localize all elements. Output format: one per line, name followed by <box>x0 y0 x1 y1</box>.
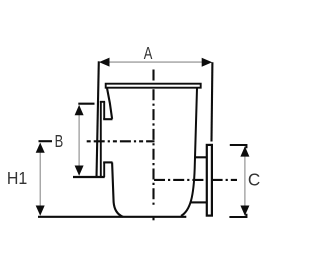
right outlet plate <box>207 145 212 216</box>
right wall <box>181 88 197 216</box>
arrow H1 bottom <box>36 206 45 216</box>
left wall upper <box>107 88 112 119</box>
svg-text:C: C <box>248 170 260 190</box>
dimension line B <box>78 106 80 175</box>
left inlet arm top <box>103 118 112 120</box>
left wall lower <box>112 162 123 216</box>
H1 extension top <box>39 140 53 142</box>
extension line A left <box>97 61 99 177</box>
C extension bottom <box>229 214 246 217</box>
left inlet flange inner face lower <box>103 162 105 177</box>
right outlet arm bottom <box>191 201 207 203</box>
arrow H1 top <box>36 143 45 153</box>
arrow A left <box>99 58 110 67</box>
dimension line A <box>100 61 211 63</box>
dimension line H1 <box>39 144 41 215</box>
dimension line C <box>244 148 246 215</box>
centerline vertical end dot <box>152 218 154 221</box>
arrow A right <box>202 58 213 67</box>
centerline left inlet <box>87 140 155 142</box>
svg-text:H1: H1 <box>7 168 27 188</box>
arrow C bottom <box>240 206 249 216</box>
skimmer rim <box>106 84 201 88</box>
arrow B top <box>75 105 84 115</box>
right outlet arm top <box>195 156 207 158</box>
extension line A right <box>210 62 213 141</box>
svg-text:A: A <box>144 43 153 63</box>
B extension top <box>78 103 94 105</box>
pot bottom / H1 baseline <box>38 216 186 218</box>
arrow B bottom <box>75 166 84 176</box>
arrow C top <box>240 146 249 156</box>
left inlet flange outer face <box>100 101 102 177</box>
centerline right outlet <box>154 179 237 181</box>
left inlet flange inner face upper <box>103 102 105 119</box>
left inlet flange top cap <box>100 101 105 103</box>
left inlet arm bottom <box>103 161 112 163</box>
B extension bottom <box>73 176 105 178</box>
centerline vertical <box>152 70 154 206</box>
svg-text:B: B <box>55 131 64 151</box>
C extension top <box>230 145 247 148</box>
